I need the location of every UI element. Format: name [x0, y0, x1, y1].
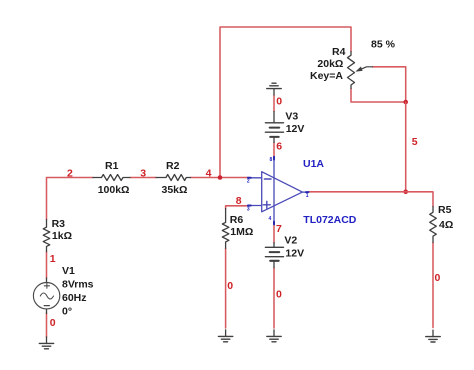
svg-text:0: 0 [227, 280, 233, 292]
ground (V1) [39, 337, 53, 349]
resistor R3 [43, 220, 50, 252]
svg-text:8: 8 [236, 195, 242, 207]
svg-text:4: 4 [269, 216, 272, 222]
svg-text:4: 4 [206, 167, 212, 179]
wire node 1 (R3 bottom to V1 plus) [46, 252, 48, 278]
resistor R1 [93, 175, 130, 181]
ground (R6) [218, 330, 232, 342]
wire R4 wiper to node 5 [373, 67, 406, 102]
svg-text:0: 0 [276, 289, 282, 301]
resistor R2 [156, 175, 191, 181]
wire node 0 below R5 [432, 243, 434, 328]
svg-text:12V: 12V [285, 247, 304, 259]
svg-text:Key=A: Key=A [310, 70, 343, 82]
wire node 8 (R6 top to op-amp + input) [226, 206, 249, 209]
svg-text:3: 3 [140, 167, 146, 179]
svg-text:3: 3 [247, 206, 250, 212]
svg-text:8: 8 [270, 157, 273, 163]
wire node 0 below R6 [225, 248, 227, 328]
svg-text:6: 6 [276, 141, 282, 153]
svg-text:TL072ACD: TL072ACD [303, 214, 357, 226]
dc source V2 [265, 243, 283, 268]
svg-text:R2: R2 [166, 160, 180, 172]
svg-text:100kΩ: 100kΩ [98, 184, 130, 196]
potentiometer R4 [348, 52, 373, 89]
op-amp U1A TL072ACD [248, 157, 309, 225]
ac source V1 [33, 278, 59, 314]
resistor R5 [430, 207, 437, 243]
svg-text:1: 1 [306, 193, 309, 199]
svg-text:R5: R5 [438, 204, 452, 216]
svg-text:20kΩ: 20kΩ [317, 58, 343, 70]
junction R4 wiper/bottom [403, 100, 408, 105]
wire node 0 above V3 [273, 95, 275, 112]
dc source V3 [265, 112, 283, 143]
wire node 0 below V1 [46, 313, 48, 337]
svg-text:2: 2 [247, 179, 250, 185]
svg-text:7: 7 [276, 223, 282, 235]
wire node 5 output rail to R5 [309, 192, 433, 207]
svg-text:V3: V3 [285, 110, 298, 122]
wire node 5 vertical [405, 102, 407, 192]
svg-text:5: 5 [412, 136, 418, 148]
svg-text:1MΩ: 1MΩ [230, 226, 253, 238]
wire node 2 (R3 top to R1 left) [47, 178, 94, 220]
svg-text:U1A: U1A [303, 158, 324, 170]
ground (R5) [426, 330, 440, 342]
junction node 4 [218, 175, 223, 180]
svg-text:8Vrms: 8Vrms [62, 279, 94, 291]
svg-text:85 %: 85 % [371, 38, 396, 50]
svg-text:12V: 12V [286, 123, 305, 135]
svg-text:0: 0 [276, 96, 282, 108]
svg-text:V1: V1 [62, 265, 75, 277]
wire node 4 (R2 to op-amp inverting input) [191, 177, 249, 179]
svg-text:4Ω: 4Ω [439, 219, 453, 231]
svg-text:R4: R4 [332, 46, 346, 58]
svg-text:0°: 0° [62, 306, 72, 318]
wire node 6 (V3 minus to op-amp V+) [273, 143, 275, 158]
svg-text:35kΩ: 35kΩ [162, 184, 188, 196]
ground (V3, inverted at top) [267, 83, 281, 95]
svg-text:R3: R3 [52, 218, 66, 230]
svg-text:1: 1 [50, 253, 56, 265]
svg-text:60Hz: 60Hz [62, 292, 87, 304]
svg-text:2: 2 [67, 167, 73, 179]
svg-text:0: 0 [435, 272, 441, 284]
svg-text:R1: R1 [105, 160, 119, 172]
svg-text:V2: V2 [284, 235, 297, 247]
wire R4 bottom terminal to node 5 [351, 89, 406, 103]
wire node 4 feedback riser to R4 top [220, 27, 351, 178]
wire node 7 (op-amp V- to V2 plus) [273, 225, 275, 243]
junction node 5 output [403, 190, 408, 195]
svg-text:0: 0 [50, 317, 56, 329]
svg-text:1kΩ: 1kΩ [52, 230, 72, 242]
resistor R6 [222, 209, 229, 249]
ground (V2) [267, 330, 281, 342]
wire node 0 below V2 [273, 268, 275, 328]
wire node 3 (R1 to R2) [130, 177, 156, 179]
svg-text:R6: R6 [230, 214, 244, 226]
